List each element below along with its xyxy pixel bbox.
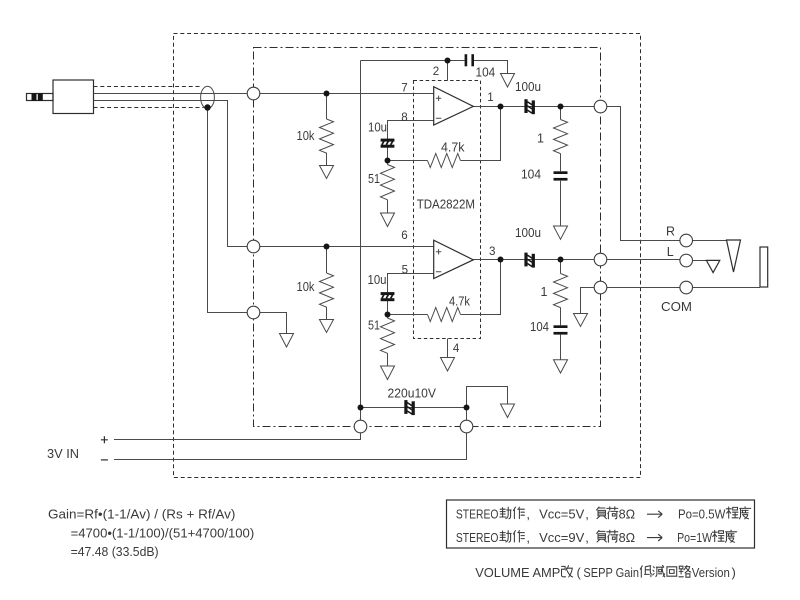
svg-text:3: 3 (489, 245, 495, 258)
spec box (447, 500, 755, 548)
inner dash-dot amp-unit box (254, 48, 601, 427)
svg-text:1: 1 (541, 285, 548, 299)
ground 10k ch1 (320, 166, 334, 179)
svg-text:51: 51 (368, 172, 380, 186)
output jack COM terminal (680, 281, 693, 294)
capacitor 220u10V (404, 400, 415, 415)
terminal circle out ch2 (594, 253, 607, 266)
svg-text:Gain=Rf•(1-1/Av) / (Rs + Rf/Av: Gain=Rf•(1-1/Av) / (Rs + Rf/Av) (48, 506, 235, 521)
wire ring input R-ch (94, 101, 434, 247)
svg-text:Version: Version (692, 565, 730, 580)
wire shield to ground (208, 108, 287, 334)
junction dot fb ch1 (385, 158, 391, 164)
terminal circle in GND (247, 306, 260, 319)
svg-text:8Ω: 8Ω (619, 530, 636, 545)
junction dot 10k ch2 (324, 244, 330, 250)
cable ellipse (201, 86, 215, 108)
wire COM to jack sleeve (606, 287, 760, 289)
capacitor 10u ch1 (381, 139, 395, 148)
power supply wires (114, 387, 508, 460)
capacitor 100u ch2 (524, 253, 535, 268)
svg-text:10u: 10u (368, 273, 387, 287)
svg-text:,: , (526, 530, 530, 545)
svg-text:4.7k: 4.7k (441, 141, 465, 155)
wire feedback ch1 (388, 107, 501, 161)
wire COM inner to ground (581, 288, 594, 314)
svg-text:2: 2 (433, 65, 439, 78)
resistor 4.7k ch2 (428, 308, 461, 322)
svg-text:104: 104 (476, 66, 496, 80)
terminal circle V+ (354, 420, 367, 433)
svg-text:10k: 10k (297, 129, 316, 143)
svg-text:(: ( (577, 565, 582, 580)
svg-text:6: 6 (401, 229, 407, 242)
svg-text:VOLUME AMP: VOLUME AMP (475, 565, 560, 580)
svg-text:STEREO: STEREO (456, 530, 499, 545)
wire pin8 and 10u C ch1 (388, 121, 434, 165)
resistor 4.7k ch1 (428, 154, 461, 168)
output jack L terminal (680, 254, 693, 267)
wire tip input L-ch (94, 93, 434, 95)
outer dashed enclosure box (174, 34, 641, 478)
junction dot out1 (498, 104, 504, 110)
svg-text:Po=0.5W: Po=0.5W (678, 506, 726, 521)
svg-text:104: 104 (530, 320, 549, 334)
wire L terminal to jack (693, 260, 707, 262)
terminal circle in R (247, 240, 260, 253)
wire snubber ch1 (560, 107, 562, 227)
ground pin4 (441, 358, 455, 372)
plug body (53, 80, 94, 114)
wire output ch2 to L (473, 259, 680, 261)
resistor 51 ch2 (381, 318, 395, 366)
svg-text:): ) (732, 565, 736, 580)
wire pin4 (447, 339, 449, 358)
ground 51 ch2 (381, 366, 395, 380)
junction dot snub1 (558, 104, 564, 110)
junction dot V+ rail (358, 405, 364, 411)
resistor 10k ch1 (320, 119, 334, 153)
svg-text:10u: 10u (368, 121, 387, 135)
jack R tip contact (727, 240, 741, 272)
wire pin5 and 10u C ch2 (388, 274, 434, 319)
svg-text:51: 51 (368, 319, 380, 333)
wire feedback ch2 (388, 260, 501, 315)
svg-text:3V IN: 3V IN (47, 446, 79, 461)
ground COM (574, 314, 588, 327)
svg-text:8: 8 (401, 111, 407, 124)
svg-text:10k: 10k (297, 280, 316, 294)
resistor 51 ch1 (381, 165, 395, 214)
junction dot V- rail (464, 405, 470, 411)
svg-text:TDA2822M: TDA2822M (417, 197, 475, 211)
output jack R terminal (680, 234, 693, 247)
svg-text:100u: 100u (515, 80, 541, 94)
ground power minus (501, 404, 515, 418)
svg-text:,: , (585, 530, 589, 545)
svg-text:220u10V: 220u10V (388, 387, 437, 401)
svg-text:7: 7 (401, 82, 407, 95)
junction dot shield (204, 104, 210, 110)
wire pin2 Vcc top with 104 bypass (361, 61, 508, 81)
resistor 1 snubber ch1 (554, 120, 568, 154)
plug tip band 1 (32, 93, 37, 101)
svg-text:SEPP Gain: SEPP Gain (583, 565, 639, 580)
ground snubber ch1 (554, 226, 568, 239)
wire 10k ch1 (326, 94, 328, 166)
svg-text:COM: COM (661, 300, 692, 314)
plug tip band 2 (38, 93, 43, 101)
wire snubber ch2 (560, 260, 562, 360)
wire V+ rail (114, 61, 361, 440)
terminal circle out ch1 (594, 100, 607, 113)
spec line1 (456, 506, 751, 521)
capacitor 100u ch1 (524, 99, 535, 114)
junction dot snub2 (558, 257, 564, 263)
op-amp U1b (434, 240, 474, 278)
resistor 1 snubber ch2 (554, 274, 568, 308)
svg-text:=4700•(1-1/100)/(51+4700/100): =4700•(1-1/100)/(51+4700/100) (71, 525, 255, 540)
op-amp U1a (434, 87, 474, 125)
junction dot fb ch2 (385, 312, 391, 318)
svg-text:L: L (667, 245, 674, 259)
TDA2822M IC dashed box (414, 81, 481, 339)
svg-text:1: 1 (487, 91, 493, 104)
svg-text:,: , (585, 506, 589, 521)
svg-text:8Ω: 8Ω (619, 506, 636, 521)
spec line2 (456, 530, 737, 545)
shielded cable dashed outline (94, 87, 204, 108)
minus sign (101, 459, 108, 461)
ground 51 ch1 (381, 213, 395, 227)
svg-text:4.7k: 4.7k (449, 295, 471, 309)
ground shield (280, 334, 294, 348)
svg-text:STEREO: STEREO (456, 506, 499, 521)
jack sleeve bar (760, 247, 768, 287)
wire 10k ch2 (326, 247, 328, 320)
plus sign (101, 436, 108, 443)
capacitor 104 top plates (465, 54, 468, 66)
jack L contact (706, 260, 719, 272)
capacitor 104 snubber ch1 (554, 171, 568, 174)
svg-text:5: 5 (402, 263, 408, 276)
svg-text:100u: 100u (515, 226, 541, 240)
junction dot out2 (498, 257, 504, 263)
svg-text:,: , (526, 506, 530, 521)
caption (475, 565, 736, 580)
junction dot 10k ch1 (324, 91, 330, 97)
svg-text:Po=1W: Po=1W (677, 530, 713, 545)
capacitor 104 snubber ch2 (554, 325, 568, 328)
ground snubber ch2 (554, 360, 568, 373)
svg-text:Vcc=5V: Vcc=5V (539, 506, 585, 521)
capacitor 10u ch2 (381, 292, 395, 301)
wire output ch1 to R (473, 107, 680, 241)
svg-text:=47.48 (33.5dB): =47.48 (33.5dB) (71, 544, 159, 559)
svg-text:104: 104 (521, 168, 541, 182)
svg-text:Vcc=9V: Vcc=9V (539, 530, 585, 545)
junction dot pin2 (445, 58, 451, 64)
ground 10k ch2 (320, 320, 334, 333)
wire R terminal to jack (693, 240, 727, 242)
svg-text:R: R (666, 225, 675, 239)
svg-text:4: 4 (453, 342, 460, 355)
terminal circle out COM (594, 281, 607, 294)
terminal circle V- (460, 420, 473, 433)
plug barrel (27, 94, 54, 101)
ground 104 top (501, 74, 515, 88)
terminal circle in L (247, 87, 260, 100)
svg-text:1: 1 (537, 132, 544, 146)
resistor 10k ch2 (320, 273, 334, 307)
